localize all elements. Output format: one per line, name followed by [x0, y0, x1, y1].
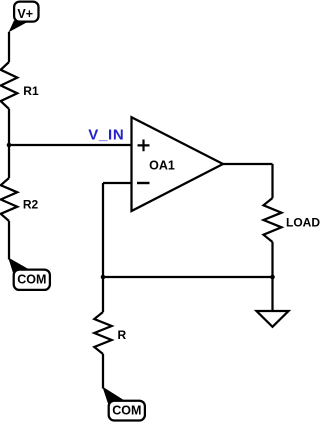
svg-text:R2: R2: [23, 197, 39, 211]
svg-text:COM: COM: [112, 404, 141, 418]
svg-text:LOAD: LOAD: [286, 215, 320, 229]
svg-text:R1: R1: [23, 84, 39, 98]
svg-text:R: R: [118, 328, 127, 342]
svg-text:V_IN: V_IN: [88, 127, 124, 144]
svg-text:OA1: OA1: [149, 158, 175, 172]
svg-text:V+: V+: [17, 7, 33, 21]
svg-text:COM: COM: [17, 272, 46, 286]
